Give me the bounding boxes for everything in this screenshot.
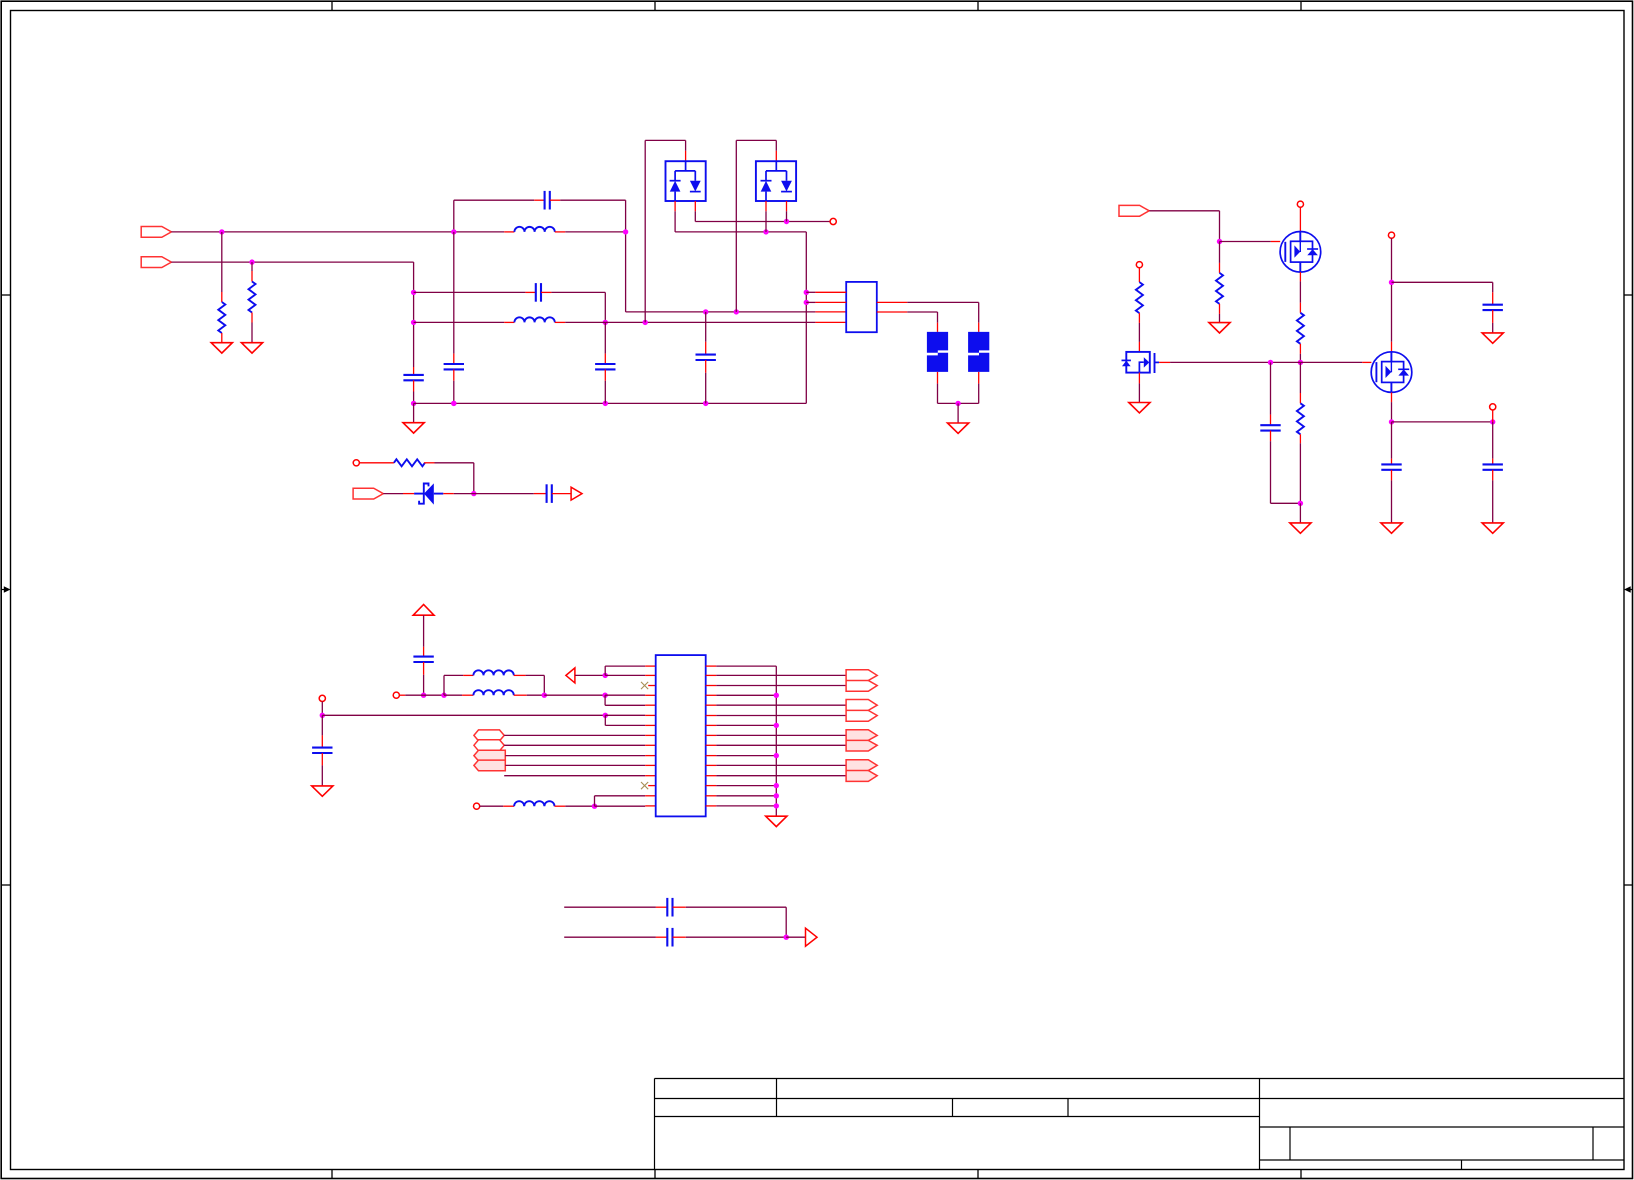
wire U2-7 branch [604,715,606,725]
inductor L5 [503,805,514,807]
resistor R6 [1299,393,1301,403]
pin U2-12 [645,775,656,777]
resistor R7 [359,462,394,464]
ground C7r [1381,523,1402,533]
wire loop up [443,675,445,695]
transistor Q1 [1280,232,1321,273]
wire Q1-R4 [1299,281,1301,302]
connector P1 [474,730,504,741]
capacitor C6 [1492,292,1494,304]
frame zone ticks [331,1,333,10]
connector P4 [474,760,505,771]
node net5-D3 [784,219,789,224]
pin Q1 source [1299,272,1301,281]
frame center arrow right [1627,589,1633,591]
wire D2 pin1 stub [685,140,687,150]
pin U2-13 nc [648,785,656,787]
wire C4 bottom [705,373,707,404]
pin U2-1 [645,665,656,667]
connector P3 [474,750,505,761]
wire C7r gnd [1391,480,1393,523]
wire R6 bottom [1299,443,1301,503]
connector P7 [846,730,877,751]
pin D2-1 [685,151,687,161]
pin Q3 source [1138,373,1140,384]
node net6-U2 [602,693,607,698]
IC U2 [656,655,706,816]
wire right loop vertical [805,232,807,404]
IC U1 [846,282,877,332]
wire C8r top [1492,422,1494,459]
wire U1-5 to F1 [907,311,937,313]
pin U2-3 nc [648,685,656,687]
node Q2d-C6 [1389,280,1394,285]
node net10 [784,935,789,940]
connector out2 left arrow [566,668,575,683]
node net2-netA [411,290,416,295]
node C2a-rail [451,401,456,406]
connector P8 [846,760,877,782]
wire C2a bottom [453,381,455,404]
pin D2-3 [694,201,696,211]
pin U2-11 [645,764,656,766]
no-connect U2-3 [641,682,648,689]
connector out3 [806,928,818,946]
terminal R5 [1136,262,1142,268]
wire C10 top [321,715,323,735]
resistor R3 [1219,263,1221,273]
frame center arrow left [1,589,7,591]
wire C4 branch [705,312,707,342]
wire gnd bus [775,666,777,816]
ground C10 [312,786,333,796]
wire Q2s right [1392,421,1493,423]
wire net7 stub [321,702,323,716]
connector J2 [141,257,171,268]
wire C9 bottom [423,675,425,695]
wire netB b [565,321,815,323]
wires U2 to connectors [716,674,846,676]
wire D2-2 down [674,211,676,232]
node bus-R4 [1298,360,1303,365]
node net1-right [623,229,628,234]
capacitor C4 [705,342,707,355]
wire net6 a [405,694,423,696]
wire D2 top left vert [644,140,646,322]
node C9-net6 [421,693,426,698]
terminal net5 [830,218,836,224]
pin Q1 drain [1299,207,1301,231]
wire net10 a [564,936,656,938]
wire net6 c [527,694,545,696]
wire net9 b [686,906,786,908]
wire U1-6 to F2 [907,301,978,303]
node rail-C3b [603,401,608,406]
wire net6 d [544,694,605,696]
ground R1 [211,343,232,353]
terminal C8r [1490,404,1496,410]
capacitor C2 [534,199,544,201]
wire arrow-U2 [575,674,605,676]
wire netA a [414,291,526,293]
dual diode D2 [666,161,706,201]
node net7-U2 [603,713,608,718]
wire P3-U2 [505,755,645,757]
node Q2s [1389,419,1394,424]
wire net1 a [171,231,504,233]
wire net5 [695,221,830,223]
ground fuses [948,423,969,433]
node net3-D3 [734,309,739,314]
wire net9 a [564,906,656,908]
pin U2-10 [645,755,656,757]
wire bypass right vert [625,200,627,312]
node net7 [320,713,325,718]
pin D3-3 [786,201,788,211]
pin Q2 source [1391,392,1393,402]
wire C1 bottom [413,392,415,404]
pin U2-9 [645,744,656,746]
pin D3-2 [765,201,767,211]
pin U2-4 [645,694,656,696]
pin F1 top [937,323,939,332]
wire netA down [604,292,606,322]
wire C6 gnd [1492,323,1494,333]
node arrow-U2 [603,673,608,678]
wire R3 top [1219,242,1221,263]
wire gate Q1 [1220,241,1271,243]
ground R3 [1209,323,1230,333]
wire U2-16 [716,665,776,667]
wire loop right [526,674,545,676]
pin Q2 drain [1391,342,1393,352]
node loop-U1p1 [804,290,809,295]
capacitor C11 [656,906,667,908]
connector J4 [1119,205,1149,216]
wire U2-1 branch [604,666,606,675]
wire C2a branch [453,232,455,354]
wire R6 top [1299,362,1301,393]
connector out1 [571,487,582,500]
pin U1-5 [877,311,908,313]
pin C8r top [1492,410,1494,422]
wire L5 left [480,805,504,807]
pin U1-6 [877,301,908,303]
connector P6 [846,700,877,722]
inductor L2 [504,321,514,323]
terminal net6 [393,692,399,698]
pin U1-4 [815,321,846,323]
title block [654,1079,656,1170]
wire net2 vertical [413,262,415,367]
wire U2-14 branch [594,796,596,806]
node loop-U1p2 [804,300,809,305]
node R6-C5r [1298,501,1303,506]
node net4-D3 [763,229,768,234]
pin Q1 gate [1271,241,1280,243]
wire net10 b [686,936,786,938]
wire netB a [414,321,505,323]
pin U2-14 [645,795,656,797]
wire gnd stub [413,403,415,422]
wire gate bus [1170,361,1362,363]
wire U2-5 branch [604,695,606,705]
wire R1 top [221,232,223,292]
wire C7r top [1391,422,1393,459]
inductor L3 [463,674,473,676]
wire D2 top horiz [645,139,685,141]
wire P2-U2 [504,744,645,746]
resistor R2 [251,271,253,282]
connector J3 [353,488,383,499]
wire R6 gnd [1299,503,1301,523]
node net6-loop [441,693,446,698]
wire fuse gnd [957,403,959,423]
wire net4 [675,231,806,233]
wire C8r gnd [1492,480,1494,523]
zener D1 [403,493,414,495]
wire net7 [322,714,605,716]
wire net3 [626,311,816,313]
capacitor C8r [1492,459,1494,465]
wire D3-2 down [765,211,767,232]
pins U2 right [706,665,717,667]
wire C5r top [1270,362,1272,414]
node Q2s-C8r [1490,419,1495,424]
capacitor C5 [534,493,547,495]
inductor L4 [462,694,473,696]
transistor Q3 [1126,352,1150,373]
wire bottom rail [414,402,807,404]
wire net6 b [444,694,462,696]
connector J1 [141,227,171,238]
node netA-netB [603,320,608,325]
wire R2 top [251,262,253,271]
capacitor C7r [1391,459,1393,465]
pin U1-1 [815,291,846,293]
node rail-C2a [451,401,456,406]
terminal Q1 drain [1297,201,1303,207]
wire U2-4 [605,694,645,696]
pin U2-8 [645,734,656,736]
capacitor C10 [321,735,323,747]
node bus-C5r [1268,360,1273,365]
node loop-net6 [542,693,547,698]
pin F2 bottom [978,372,980,384]
resistor R4 [1299,303,1301,313]
wire bypass top a [454,199,534,201]
wire R7 right [435,462,474,464]
wire net8 [504,775,645,777]
node J4-gate [1217,239,1222,244]
fuse F1 [927,332,948,353]
node netB-D2 [643,320,648,325]
wire U1-2 [806,301,815,303]
wire net10 c [786,936,805,938]
wires U2 to bus [716,694,776,696]
terminal Q2 drain [1388,232,1394,238]
node net1-R1 [219,229,224,234]
pin Q3 gate [1159,361,1170,363]
wire R3 bottom [1219,314,1221,323]
pin D2-2 [674,201,676,211]
dual diode D3 [756,161,796,201]
capacitor C3b [604,354,606,364]
node fuse gnd [955,401,960,406]
wire bypass left vert [453,200,455,232]
pin U2-5 [645,704,656,706]
wire J4 [1149,210,1219,212]
pin U1-3 [815,311,846,313]
wire L5 right [565,805,594,807]
wire U2-6 [605,714,645,716]
wire P4-U2 [505,764,645,766]
connector P2 [474,740,504,751]
node net1-bypass [451,229,456,234]
inductor L1 [504,231,514,233]
terminal L5 [474,803,480,809]
ground R2 [241,343,262,353]
wire C3b bottom [604,381,606,404]
terminal R7 [353,460,359,466]
wire R4 bottom [1299,354,1301,363]
no-connect U2-13 [641,782,648,789]
node R7-D1 [471,491,476,496]
wire VCC down [423,615,425,647]
wire D2-3 down [694,211,696,221]
wire Q3 gnd [1138,383,1140,402]
resistor R1 [221,292,223,302]
wire U1-1 [806,291,815,293]
terminal net7 [319,695,325,701]
wire U2-2 [605,674,645,676]
wire C10 gnd [321,765,323,786]
resistor R5 [1138,268,1140,282]
pin Q2 gate [1362,361,1371,363]
wire D3 pin1 stub [775,140,777,150]
wire F2 down [978,384,980,404]
connector P5 [846,670,877,692]
pin U2-7 [645,724,656,726]
capacitor C1 [413,367,415,375]
wire C3b branch [604,322,606,353]
fuse F2 [968,332,989,353]
wire R2 bottom [251,323,253,343]
node net3-C4 [703,309,708,314]
wire J3-D1 [383,493,403,495]
capacitor C5r [1270,415,1272,426]
nodes gnd bus [774,693,779,698]
pin F2 top [978,323,980,332]
wire bypass top b [560,199,625,201]
pin D3-1 [775,151,777,161]
wire R5-Q3 [1138,323,1140,342]
ground C8r [1482,523,1503,533]
wire F1 down [937,384,939,404]
ground R6 [1290,523,1311,533]
pin U1-2 [815,301,846,303]
node rail-C4 [703,401,708,406]
wire net2 [171,261,413,263]
capacitor C12 [656,936,667,938]
wire C6 branch [1392,281,1493,283]
capacitor C3 [525,291,535,293]
node C1-rail [411,401,416,406]
wire U2-15 [595,805,646,807]
capacitor C9 [423,647,425,657]
pin Q3 drain [1138,342,1140,352]
wire D3 top left vert [735,140,737,312]
pin U2-15 [645,805,656,807]
power arrow VCC [413,605,434,616]
wire Q2 source [1391,402,1393,422]
wire C5r bottom [1270,441,1272,503]
ground bus [766,816,787,826]
pin U2-6 [645,714,656,716]
wire netA b [551,291,605,293]
wire D3 top horiz [736,139,776,141]
pin U2-2 [645,674,656,676]
transistor Q2 [1371,352,1412,393]
capacitor C2a [453,354,455,364]
ground rail [403,423,424,433]
wire D3-3 down [786,211,788,221]
wire D1-C5 [454,493,534,495]
ground C6 [1482,333,1503,343]
wire Q2 drain [1391,238,1393,341]
wire P1-U2 [504,734,645,736]
pin net6 [399,694,405,696]
node net2-netB [411,320,416,325]
node L5-U2 [592,804,597,809]
ground Q3 [1129,403,1150,413]
node net2-R2 [249,259,254,264]
wire net1 b [565,231,625,233]
pin F1 bottom [937,372,939,384]
